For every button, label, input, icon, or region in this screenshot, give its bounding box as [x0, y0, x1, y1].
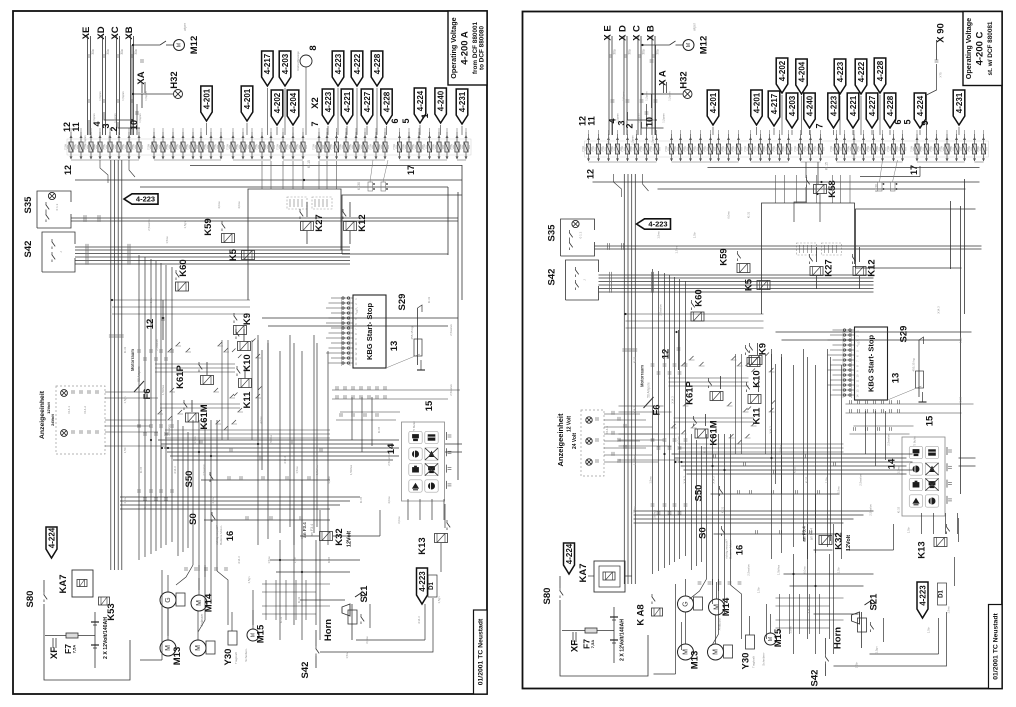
wire diag jogs under fuse row: [614, 174, 622, 197]
svg-text:4,0sw: 4,0sw: [237, 200, 241, 208]
svg-text:12: 12: [856, 384, 860, 387]
svg-text:1,5sw: 1,5sw: [143, 500, 147, 508]
svg-text:K13: K13: [917, 541, 928, 558]
wire to 4-222: [356, 88, 358, 135]
drawing number box: [989, 605, 1003, 689]
connector pair near 17: [878, 182, 883, 191]
net arrow 4-224: [46, 527, 57, 558]
svg-text:7,5A: 7,5A: [673, 146, 677, 152]
svg-text:16: 16: [735, 545, 746, 556]
wire bundle right verticals: [257, 335, 259, 545]
svg-text:Kl.15: Kl.15: [139, 466, 143, 473]
svg-text:12: 12: [586, 169, 596, 179]
svg-text:Kl.31: Kl.31: [297, 596, 301, 603]
svg-text:Kl.31: Kl.31: [279, 616, 283, 623]
fuse: [318, 135, 321, 138]
svg-text:M15: M15: [256, 624, 267, 643]
wire to 4-228: [889, 130, 891, 135]
wire to 4-228: [386, 126, 388, 135]
wire K61 mesh: [155, 363, 235, 365]
svg-text:7,5A: 7,5A: [378, 144, 382, 150]
svg-text:4-201: 4-201: [709, 92, 718, 113]
connector row above motors: [184, 567, 188, 569]
fuse: [717, 137, 720, 140]
svg-text:7,5A: 7,5A: [762, 146, 766, 152]
fuse column stubs: [588, 130, 590, 135]
wire verticals far right: [960, 206, 962, 494]
wire S35 row: [595, 245, 982, 247]
svg-text:1,5qmm: 1,5qmm: [651, 135, 655, 144]
svg-text:M: M: [196, 600, 203, 606]
svg-text:an F3.4: an F3.4: [310, 524, 314, 536]
svg-text:11: 11: [71, 122, 81, 132]
svg-text:1: 1: [856, 330, 860, 332]
svg-text:1: 1: [354, 298, 358, 300]
panel side connectors: [946, 447, 948, 455]
svg-text:11: 11: [587, 116, 597, 126]
svg-text:Horn: Horn: [323, 619, 334, 641]
fuse: [355, 135, 358, 138]
control unit KBG Start-Stop: [353, 295, 386, 368]
wire to 4-222: [860, 96, 862, 135]
motor M14: [191, 595, 207, 611]
svg-text:7,5A: 7,5A: [910, 146, 914, 152]
fuse: [80, 135, 83, 138]
wire bottom right feeds: [793, 554, 795, 654]
net arrow 4-231: [953, 90, 965, 125]
wire to 4-231: [461, 126, 463, 135]
svg-text:1,5sw: 1,5sw: [897, 465, 901, 473]
svg-text:7,5A: 7,5A: [875, 146, 879, 152]
svg-text:K60: K60: [694, 289, 705, 306]
bracket 17 page2: [860, 176, 920, 178]
svg-text:S29: S29: [397, 294, 408, 311]
svg-text:1,5bl/ws: 1,5bl/ws: [633, 454, 637, 465]
fuse column stubs: [70, 128, 72, 133]
wire to 4-227: [366, 126, 368, 135]
svg-text:Scheiben-: Scheiben-: [762, 652, 766, 666]
svg-text:7,5A: 7,5A: [312, 144, 316, 150]
svg-text:M12: M12: [189, 36, 200, 54]
svg-text:K59: K59: [203, 218, 214, 235]
svg-text:Kl.31: Kl.31: [123, 346, 127, 353]
svg-text:2,5sw/ws: 2,5sw/ws: [202, 464, 206, 476]
svg-text:13: 13: [856, 389, 860, 392]
svg-text:S50: S50: [694, 485, 705, 502]
wire to 4-240: [440, 125, 442, 135]
svg-text:7,5A: 7,5A: [711, 146, 715, 152]
fuse: [626, 137, 629, 140]
svg-text:1,5sw: 1,5sw: [947, 605, 951, 613]
svg-text:X14.3: X14.3: [633, 406, 637, 414]
telltale icon: [909, 446, 922, 458]
svg-text:1,5gn: 1,5gn: [633, 506, 637, 513]
fuse: [963, 137, 966, 140]
fuse: [901, 137, 904, 140]
svg-text:K27: K27: [824, 259, 835, 276]
svg-text:M: M: [165, 645, 172, 651]
telltale icon: [925, 463, 938, 475]
motor leads: [685, 579, 687, 596]
net arrow 4-228: [371, 51, 383, 86]
wire to 4-221: [346, 126, 348, 135]
svg-text:Operating Voltage: Operating Voltage: [964, 18, 973, 79]
fuse: [819, 137, 822, 140]
svg-text:4-223: 4-223: [418, 571, 427, 592]
svg-text:7,5A: 7,5A: [886, 146, 890, 152]
svg-text:1,5br: 1,5br: [907, 527, 911, 533]
svg-text:K59: K59: [719, 248, 730, 265]
svg-text:H32: H32: [679, 71, 690, 88]
fuse: [251, 135, 254, 138]
connector block X11: [797, 243, 817, 255]
svg-text:M14: M14: [721, 597, 732, 616]
svg-text:7,5A: 7,5A: [147, 144, 151, 150]
svg-text:Motorraum: Motorraum: [130, 349, 135, 371]
connector pair near 17: [368, 182, 373, 191]
net arrow 4-224: [914, 93, 926, 128]
svg-text:1,5qmm: 1,5qmm: [645, 91, 649, 100]
wire right feeds K13: [958, 518, 960, 542]
motor leads: [167, 575, 169, 592]
sensor circle: [300, 55, 312, 67]
svg-text:1,5sw: 1,5sw: [345, 650, 349, 658]
svg-text:Kl.30: Kl.30: [357, 182, 361, 190]
svg-text:7,5A: 7,5A: [339, 144, 343, 150]
fuse: [935, 137, 938, 140]
svg-text:6,0sw: 6,0sw: [665, 350, 669, 358]
wire to 4-223: [327, 126, 329, 135]
wire diag jogs under fuse row: [100, 160, 108, 183]
svg-text:4-240: 4-240: [805, 95, 814, 116]
svg-text:X14.3: X14.3: [683, 476, 687, 484]
svg-text:J: J: [59, 251, 63, 253]
svg-text:24 Volt: 24 Volt: [572, 433, 578, 449]
svg-text:an F3.4: an F3.4: [810, 528, 814, 540]
net arrow 4-240: [435, 88, 447, 123]
svg-text:30a: 30a: [642, 49, 646, 55]
svg-text:K10: K10: [752, 370, 763, 387]
net arrow 4-201: [751, 90, 762, 125]
fuse: [881, 137, 884, 140]
svg-text:7,5A: 7,5A: [64, 144, 68, 150]
svg-text:1,5qmm: 1,5qmm: [622, 91, 626, 100]
svg-text:15: 15: [925, 415, 936, 426]
wire to 4-203: [284, 88, 286, 135]
fuse: [778, 137, 781, 140]
fuse: [345, 135, 348, 138]
svg-text:X14.3: X14.3: [671, 396, 675, 404]
motor M15: [247, 629, 259, 641]
fuse: [200, 135, 203, 138]
fuse: [418, 135, 421, 138]
net arrow 4-222: [351, 51, 363, 86]
fuse: [210, 135, 213, 138]
svg-text:1,5qmm: 1,5qmm: [616, 113, 620, 122]
svg-text:X14.3: X14.3: [173, 466, 177, 474]
wire right horizontals upper: [776, 331, 972, 333]
wire horizontal bundle lower: [158, 439, 399, 441]
svg-text:1,5qmm: 1,5qmm: [637, 113, 641, 122]
wire bundle extra verticals: [177, 420, 179, 556]
svg-text:30a: 30a: [120, 49, 124, 55]
svg-text:4-200 C: 4-200 C: [975, 31, 986, 65]
fuse: [375, 135, 378, 138]
svg-text:4,0sw: 4,0sw: [123, 495, 127, 503]
svg-text:17: 17: [909, 165, 919, 175]
wire to 4-221: [852, 130, 854, 135]
svg-text:1,5qmm: 1,5qmm: [607, 135, 611, 144]
svg-text:4,0sw: 4,0sw: [387, 495, 391, 503]
svg-text:4-222: 4-222: [857, 61, 866, 82]
svg-text:Kl.15: Kl.15: [359, 496, 363, 503]
svg-text:4-223: 4-223: [136, 195, 155, 204]
connector ladder S35: [607, 243, 609, 247]
svg-text:an F3.4: an F3.4: [302, 522, 307, 538]
svg-text:7,5A: 7,5A: [895, 146, 899, 152]
telltale icon: [425, 480, 438, 492]
wire S42 rows: [599, 274, 874, 276]
svg-text:D1: D1: [939, 590, 945, 598]
svg-text:4-222: 4-222: [353, 53, 362, 74]
svg-text:12 Volt: 12 Volt: [567, 416, 573, 432]
svg-text:4-203: 4-203: [788, 95, 797, 116]
svg-text:4-217: 4-217: [263, 53, 272, 74]
svg-text:1,5qmm: 1,5qmm: [662, 113, 666, 122]
net arrow 4-228: [884, 93, 896, 128]
wire to 4-240: [809, 130, 811, 135]
svg-text:X14.3: X14.3: [417, 616, 421, 624]
lamp H32: [643, 93, 683, 95]
wire horizontals upper-mid: [112, 299, 250, 301]
wire motor fan: [176, 565, 193, 585]
svg-text:7,5A: 7,5A: [450, 144, 454, 150]
svg-text:H32: H32: [169, 71, 180, 88]
svg-text:X14-1: X14-1: [67, 406, 71, 414]
svg-text:4-223: 4-223: [918, 585, 927, 606]
svg-text:wiper: wiper: [183, 22, 187, 31]
fuse: [689, 137, 692, 140]
svg-text:7,5A: 7,5A: [226, 144, 230, 150]
wire XA to H32: [651, 94, 653, 108]
svg-text:4-228: 4-228: [886, 95, 895, 116]
svg-text:S80: S80: [542, 588, 553, 605]
svg-text:2,5sw/ws: 2,5sw/ws: [449, 384, 453, 396]
svg-text:7,5A: 7,5A: [847, 146, 851, 152]
connector row above motors: [698, 581, 702, 583]
svg-text:14: 14: [856, 394, 860, 397]
svg-text:4-227: 4-227: [363, 91, 372, 112]
svg-text:7,5A: 7,5A: [949, 146, 953, 152]
svg-text:7: 7: [354, 328, 358, 330]
svg-text:7: 7: [310, 121, 320, 126]
junction dots: [675, 331, 677, 333]
wire rows from Anzeigeeinheit: [604, 413, 640, 415]
telltale icon: [909, 463, 922, 475]
svg-text:1,5qmm: 1,5qmm: [668, 91, 672, 100]
svg-text:7,5A: 7,5A: [866, 146, 870, 152]
svg-text:M: M: [713, 604, 720, 610]
fuse: [749, 137, 752, 140]
svg-text:Kl.15: Kl.15: [825, 162, 829, 170]
svg-text:X75: X75: [939, 72, 943, 78]
motor M14: [709, 599, 725, 615]
telltale icon: [425, 431, 438, 443]
svg-text:Y30: Y30: [741, 653, 752, 670]
svg-text:455,35 kg: 455,35 kg: [410, 326, 414, 340]
svg-text:7,5A: 7,5A: [610, 146, 614, 152]
svg-text:9: 9: [856, 370, 860, 372]
svg-text:1,5br: 1,5br: [693, 232, 697, 238]
panel side connectors: [446, 432, 448, 440]
svg-text:1,5qmm: 1,5qmm: [113, 113, 117, 122]
svg-text:Tragkraft: Tragkraft: [234, 652, 238, 664]
drawing number box: [474, 610, 488, 694]
motor M12: [133, 44, 160, 46]
svg-text:1,5sw: 1,5sw: [165, 235, 169, 243]
wire connector row mid: [849, 400, 851, 404]
fuse: [465, 135, 468, 138]
net arrow 4-231: [456, 89, 468, 124]
bundle tick pairs lower: [199, 440, 201, 444]
wire upper right of K61: [775, 364, 777, 484]
fuse: [270, 135, 273, 138]
svg-text:1,5gn: 1,5gn: [183, 221, 187, 228]
svg-text:X14-2: X14-2: [83, 406, 87, 414]
svg-text:Anlasser: Anlasser: [718, 617, 722, 630]
svg-text:KA7: KA7: [58, 574, 69, 593]
fuse: [128, 135, 131, 138]
wire to 4-202: [781, 95, 783, 135]
wire connector row mid: [335, 386, 337, 390]
telltale icon: [409, 463, 422, 475]
svg-text:01/2001 TC Neustadt: 01/2001 TC Neustadt: [993, 613, 1000, 680]
svg-text:1,5bl/ws: 1,5bl/ws: [349, 464, 353, 475]
svg-text:7,5A: 7,5A: [781, 146, 785, 152]
wire right feeds K13: [444, 504, 446, 528]
svg-text:K9: K9: [242, 313, 253, 325]
wire to 4-223: [337, 88, 339, 135]
svg-text:1,5sw: 1,5sw: [789, 625, 793, 633]
svg-text:2: 2: [354, 303, 358, 305]
svg-text:7,5A: 7,5A: [590, 640, 595, 649]
svg-text:5: 5: [856, 350, 860, 352]
net arrow 4-203: [786, 93, 798, 128]
svg-text:K60: K60: [178, 259, 189, 276]
generator G1: [160, 592, 176, 608]
wire K32 links: [300, 535, 319, 537]
wire to 4-217: [266, 88, 268, 135]
svg-text:S42: S42: [23, 241, 34, 258]
svg-text:10: 10: [856, 374, 860, 377]
svg-text:2,5sw/ws: 2,5sw/ws: [167, 424, 171, 436]
wire K feeds: [206, 362, 208, 375]
fuse: [616, 137, 619, 140]
svg-text:S80: S80: [25, 591, 36, 608]
fuse: [118, 135, 121, 138]
svg-text:S42: S42: [810, 670, 821, 687]
svg-text:5: 5: [401, 118, 411, 123]
svg-text:wiper: wiper: [693, 22, 697, 31]
svg-text:2: 2: [856, 335, 860, 337]
fuse: [335, 135, 338, 138]
net arrow 4-240: [804, 93, 815, 128]
svg-text:1,5br: 1,5br: [837, 567, 841, 573]
fuse: [872, 137, 875, 140]
svg-text:4-223: 4-223: [334, 53, 343, 74]
svg-text:X14.3: X14.3: [237, 556, 241, 564]
svg-text:7,5A: 7,5A: [186, 144, 190, 150]
svg-text:4-227: 4-227: [868, 95, 877, 116]
net arrow 4-201: [707, 90, 719, 125]
fuse: [232, 135, 235, 138]
svg-text:10: 10: [354, 342, 358, 345]
svg-text:S35: S35: [547, 224, 558, 242]
svg-text:7,5A: 7,5A: [976, 146, 980, 152]
svg-text:7,5A: 7,5A: [255, 144, 259, 150]
svg-text:X2: X2: [310, 97, 321, 109]
svg-text:Kl.15: Kl.15: [327, 556, 331, 563]
fuse: [438, 135, 441, 138]
svg-text:st. w/ DCF 880081: st. w/ DCF 880081: [987, 21, 994, 75]
svg-text:4-228: 4-228: [373, 53, 382, 74]
svg-text:7,5A: 7,5A: [620, 146, 624, 152]
wire bundle motor feeds: [192, 420, 194, 565]
svg-text:1,5br: 1,5br: [855, 662, 859, 668]
net arrow 4-217: [768, 91, 780, 126]
wire to 4-231: [958, 127, 960, 135]
net arrow 4-202: [271, 90, 283, 125]
fuse: [843, 137, 846, 140]
svg-text:1,5qmm: 1,5qmm: [83, 135, 87, 144]
fuse strip background: [67, 139, 471, 155]
routing box upper mid: [248, 189, 341, 300]
svg-text:1,5qmm: 1,5qmm: [127, 135, 131, 144]
bus wire 31: [140, 186, 448, 188]
svg-text:1,5sw: 1,5sw: [193, 435, 197, 443]
svg-text:4-201: 4-201: [243, 88, 252, 109]
svg-text:KA7: KA7: [578, 563, 589, 582]
crossed out icons: [925, 463, 938, 475]
svg-text:7,5A: 7,5A: [664, 146, 668, 152]
svg-text:5: 5: [903, 119, 913, 124]
fuse: [655, 137, 658, 140]
title block: [448, 11, 487, 85]
svg-text:7,5A: 7,5A: [132, 144, 136, 150]
svg-text:1,5sw: 1,5sw: [649, 475, 653, 483]
svg-text:XF: XF: [49, 647, 60, 659]
wire icon panel feeds down: [407, 499, 409, 520]
svg-text:K10: K10: [242, 354, 253, 371]
fuse: [645, 137, 648, 140]
svg-text:7,5A: 7,5A: [591, 146, 595, 152]
wire to 4-201: [712, 127, 714, 135]
svg-text:50 Ampere: 50 Ampere: [647, 382, 651, 398]
svg-text:Motorraum: Motorraum: [640, 365, 645, 387]
wire K61 mesh: [669, 377, 749, 379]
svg-text:6,0sw: 6,0sw: [365, 635, 369, 643]
net arrow 4-223: [917, 582, 928, 618]
indicator cluster panel: [402, 422, 445, 501]
telltale icon: [925, 495, 938, 507]
svg-text:2,5sw/ws: 2,5sw/ws: [747, 564, 751, 576]
bundle tick pairs lower: [713, 454, 715, 458]
svg-text:7,5A: 7,5A: [703, 146, 707, 152]
svg-text:S42: S42: [300, 662, 311, 679]
net arrow 4-223: [332, 51, 344, 86]
svg-text:12Volt: 12Volt: [347, 531, 353, 547]
fuse: [835, 137, 838, 140]
